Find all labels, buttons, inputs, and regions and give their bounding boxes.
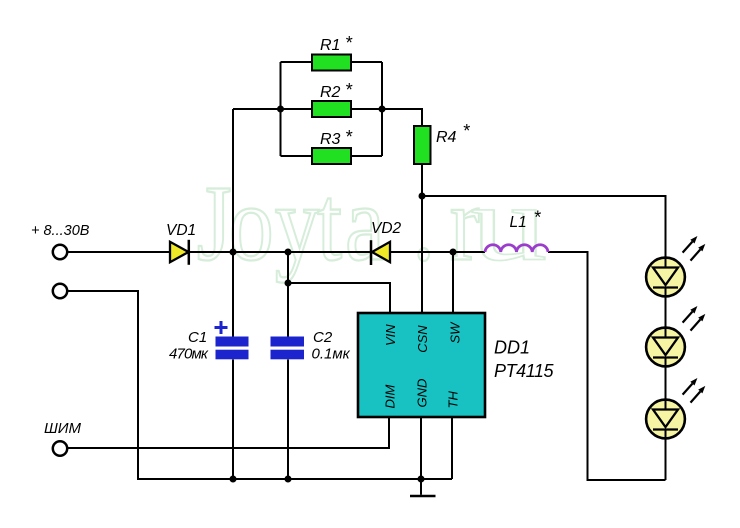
svg-text:DD1: DD1: [494, 338, 530, 358]
svg-text:R3: R3: [320, 131, 341, 148]
svg-text:ШИМ: ШИМ: [44, 420, 82, 437]
svg-text:VD1: VD1: [166, 222, 196, 239]
svg-text:SW: SW: [448, 321, 463, 344]
svg-text:L1: L1: [510, 214, 527, 231]
svg-text:R4: R4: [436, 129, 457, 146]
svg-text:+ 8...30В: + 8...30В: [31, 223, 90, 239]
svg-text:*: *: [534, 208, 542, 228]
svg-text:C2: C2: [313, 329, 333, 346]
svg-text:0.1мк: 0.1мк: [312, 346, 351, 363]
svg-text:R1: R1: [320, 37, 340, 54]
svg-text:*: *: [345, 127, 353, 147]
svg-text:*: *: [345, 80, 353, 100]
svg-text:470мк: 470мк: [169, 346, 209, 363]
svg-text:C1: C1: [188, 329, 207, 346]
svg-text:GND: GND: [415, 379, 430, 408]
svg-text:VD2: VD2: [371, 220, 402, 237]
svg-text:*: *: [345, 33, 353, 53]
svg-text:R2: R2: [320, 84, 341, 101]
svg-text:PT4115: PT4115: [494, 361, 554, 381]
svg-text:DIM: DIM: [383, 385, 398, 409]
svg-text:VIN: VIN: [383, 324, 398, 346]
svg-text:*: *: [463, 121, 471, 141]
svg-text:TH: TH: [446, 391, 461, 409]
svg-text:CSN: CSN: [415, 325, 430, 353]
